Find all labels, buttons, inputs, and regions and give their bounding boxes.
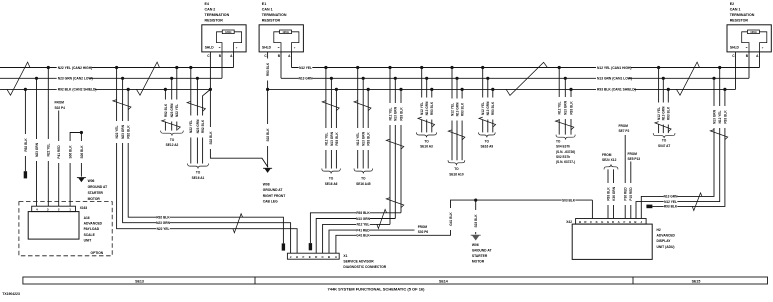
- wire N13 GRN drop: [426, 78, 428, 132]
- wire S02 BLK to ground W08: [210, 89, 268, 167]
- label N13 GRN: [424, 98, 429, 120]
- H2 advanced display unit box: [572, 224, 652, 259]
- node N13 GRN tap: [394, 77, 397, 80]
- twisted pair symbol X1 wires: [233, 214, 243, 233]
- svg-text:A16: A16: [84, 216, 90, 220]
- svg-text:R93 BLK: R93 BLK: [606, 187, 610, 201]
- svg-text:SE16 A6: SE16 A6: [325, 182, 338, 186]
- svg-text:S02 BLK: S02 BLK: [209, 131, 213, 145]
- svg-text:D: D: [612, 220, 614, 224]
- brace group D: [653, 133, 675, 138]
- label R93 BLK: [490, 98, 495, 120]
- node low tap X163: [35, 77, 38, 80]
- svg-text:R92 BLK: R92 BLK: [156, 215, 170, 219]
- node R93 BLK tap: [723, 88, 726, 91]
- svg-text:N22 YEL: N22 YEL: [157, 227, 170, 231]
- wire N13 GRN drop: [564, 78, 566, 134]
- brace group A: [322, 169, 341, 174]
- label R92 BLK: [126, 121, 131, 143]
- svg-text:SHLD: SHLD: [730, 45, 740, 49]
- svg-text:F: F: [302, 255, 304, 259]
- node N22 YEL tap: [115, 66, 118, 69]
- node tap group A: [324, 66, 327, 69]
- E4 CAN 2 termination resistor: [202, 2, 246, 58]
- svg-text:G41 BLK: G41 BLK: [356, 234, 370, 238]
- svg-text:N12 YEL: N12 YEL: [420, 102, 424, 115]
- wire S06 BLK to ground: [80, 133, 82, 177]
- label N12 YEL: [388, 103, 393, 125]
- svg-text:R93 BLK: R93 BLK: [356, 211, 370, 215]
- wire E4 pin A to high bus: [233, 52, 235, 68]
- label G41 BLK inline: [356, 233, 370, 238]
- twisted pair symbol: [187, 101, 205, 111]
- svg-text:OPTION: OPTION: [91, 251, 104, 255]
- svg-text:N13 GRN: N13 GRN: [330, 131, 334, 146]
- label N13 GRN (CAN1 LOW): [596, 76, 629, 81]
- wire P41 RED to pin B: [329, 230, 415, 253]
- svg-text:SE7 P2: SE7 P2: [619, 129, 630, 133]
- label N12 YEL: [717, 106, 722, 128]
- node tap group E: [569, 88, 572, 91]
- svg-text:X1: X1: [343, 254, 347, 258]
- svg-text:TO: TO: [424, 139, 429, 143]
- label N23 GRN: [34, 139, 39, 161]
- node tap group K: [491, 88, 494, 91]
- node N23 GRN tap: [121, 77, 124, 80]
- wire R93 BLK drop: [400, 89, 402, 212]
- wire N12 YEL drop: [558, 68, 560, 135]
- svg-text:N13 GRN: N13 GRN: [455, 102, 459, 117]
- twisted pair symbol T4: [677, 62, 700, 95]
- wire N13 GRN drop: [456, 78, 458, 160]
- label N12 YEL: [355, 128, 360, 150]
- label R92 BLK (CAN2 SHIELD): [57, 87, 95, 92]
- svg-text:S03 BLK: S03 BLK: [562, 198, 576, 202]
- svg-text:SE12 A2: SE12 A2: [166, 143, 179, 147]
- svg-text:SE5 P13: SE5 P13: [628, 157, 641, 161]
- E2 CAN 1 termination resistor: [727, 2, 771, 58]
- svg-text:TERMINATION: TERMINATION: [262, 13, 287, 17]
- brace group I: [416, 132, 436, 137]
- label S02 BLK: [208, 127, 213, 149]
- svg-text:SE14: SE14: [439, 279, 448, 283]
- svg-text:(S.N. -63726): (S.N. -63726): [556, 150, 575, 154]
- label N22 YEL inline: [156, 226, 170, 231]
- svg-text:N13 GRN: N13 GRN: [394, 106, 398, 121]
- wire N13 GRN drop: [394, 78, 396, 218]
- svg-text:TX1904223: TX1904223: [2, 292, 20, 296]
- svg-text:N13 GRN: N13 GRN: [486, 101, 490, 116]
- label N23 GRN: [169, 100, 174, 122]
- label R93 BLK: [460, 99, 465, 121]
- wire drop: [176, 68, 178, 131]
- svg-text:RIGHT FRONT: RIGHT FRONT: [263, 194, 286, 198]
- svg-text:TO: TO: [170, 138, 175, 142]
- svg-text:R93 BLK: R93 BLK: [667, 106, 671, 120]
- connector X163: [32, 206, 76, 211]
- svg-text:N12 YEL: N12 YEL: [481, 102, 485, 115]
- svg-text:H: H: [629, 220, 631, 224]
- node tap group J: [455, 77, 458, 80]
- svg-text:E: E: [601, 220, 603, 224]
- wire K36 GRN: [613, 169, 615, 218]
- svg-text:R93 BLK: R93 BLK: [266, 62, 270, 76]
- ground W06 starter motor: [78, 178, 85, 183]
- twisted pair symbol group I: [418, 117, 435, 127]
- svg-text:SCALE: SCALE: [84, 233, 96, 237]
- wire N22 YEL to X163 pin 3: [47, 68, 49, 207]
- svg-text:N12 YEL: N12 YEL: [450, 103, 454, 116]
- wire S06 BLK X163 pin 1: [70, 133, 81, 207]
- svg-text:R93 BLK: R93 BLK: [569, 101, 573, 115]
- svg-text:FROM: FROM: [628, 152, 638, 156]
- brace group E: [556, 135, 575, 140]
- wire N22 YEL drop: [117, 68, 298, 254]
- svg-text:N13 GRN: N13 GRN: [664, 195, 679, 199]
- wire E4 pin B to low bus: [221, 52, 223, 78]
- svg-text:N22 YEL: N22 YEL: [189, 120, 193, 133]
- svg-text:N22 YEL (CAN2 HIGH): N22 YEL (CAN2 HIGH): [58, 66, 93, 70]
- wire N22 YEL drop: [190, 68, 192, 164]
- svg-text:S047 AT: S047 AT: [658, 144, 670, 148]
- svg-text:DISPLAY: DISPLAY: [657, 239, 672, 243]
- svg-text:CAN 2: CAN 2: [205, 8, 216, 12]
- connector X42 bar: [576, 219, 647, 225]
- node tap group I: [425, 77, 428, 80]
- svg-text:S02 P6: S02 P6: [418, 230, 429, 234]
- label N13 GRN: [455, 99, 460, 121]
- svg-text:SE16 A9: SE16 A9: [481, 145, 494, 149]
- twisted pair symbol group D: [655, 122, 671, 132]
- svg-text:S06 BLK: S06 BLK: [68, 145, 72, 159]
- cap R93 BLK at X1: [309, 243, 312, 250]
- svg-text:N23 GRN (CAN2 LOW): N23 GRN (CAN2 LOW): [58, 77, 93, 81]
- node tap group E: [558, 66, 561, 69]
- twisted pair symbol group B: [354, 101, 371, 111]
- svg-text:TO: TO: [329, 177, 334, 181]
- svg-text:120Ω: 120Ω: [225, 30, 231, 34]
- svg-text:SE16 A45: SE16 A45: [356, 182, 371, 186]
- svg-text:N12 YEL: N12 YEL: [657, 107, 661, 120]
- node tap group B: [362, 77, 365, 80]
- svg-text:N12 YEL: N12 YEL: [558, 102, 562, 115]
- svg-text:MOTOR: MOTOR: [472, 259, 485, 263]
- svg-text:CAB LEG: CAB LEG: [263, 199, 278, 203]
- twisted pair symbol group K: [479, 117, 496, 127]
- twisted pair symbol: [386, 139, 404, 149]
- svg-text:TERMINATION: TERMINATION: [730, 13, 755, 17]
- ground W06 starter motor center: [472, 235, 480, 240]
- label S02 BLK: [265, 124, 270, 146]
- svg-text:+: +: [236, 46, 238, 50]
- label R92 BLK: [163, 100, 168, 122]
- label R93 BLK inline: [356, 210, 370, 215]
- svg-text:CAN 1: CAN 1: [262, 8, 273, 12]
- node tap group D: [657, 66, 660, 69]
- wire R93 BLK drop: [367, 89, 369, 168]
- twisted pair symbol CAN pair: [377, 209, 387, 228]
- brace group G: [161, 131, 184, 136]
- svg-text:UNIT: UNIT: [84, 238, 92, 242]
- svg-text:SE16 A1: SE16 A1: [192, 176, 205, 180]
- brace group B: [354, 169, 373, 174]
- svg-text:H2: H2: [657, 228, 661, 232]
- wire N12 YEL to pin B: [636, 68, 720, 219]
- node N12 YEL tap: [718, 66, 721, 69]
- svg-text:S06 BLK: S06 BLK: [80, 145, 84, 159]
- svg-text:W08: W08: [263, 183, 270, 187]
- svg-text:N12 YEL: N12 YEL: [324, 133, 328, 146]
- svg-text:ADVANCED: ADVANCED: [657, 234, 676, 238]
- svg-text:GROUND AT: GROUND AT: [472, 249, 492, 253]
- node N13 GRN tap: [712, 77, 715, 80]
- svg-text:N12 YEL: N12 YEL: [299, 66, 312, 70]
- svg-text:R92 BLK: R92 BLK: [201, 119, 205, 133]
- wire P41 RED to X163 pin 2: [58, 111, 60, 207]
- node tap group J: [461, 88, 464, 91]
- svg-text:FROM: FROM: [55, 101, 65, 105]
- twisted pair symbol H2 wires: [692, 193, 702, 211]
- wire R93 BLK: [607, 169, 609, 218]
- svg-text:N12 YEL: N12 YEL: [357, 223, 370, 227]
- wire N12 YEL drop: [451, 68, 453, 161]
- wire R93 BLK drop: [492, 89, 494, 132]
- label R92 BLK: [200, 116, 205, 138]
- svg-text:N23 GRN: N23 GRN: [35, 142, 39, 157]
- svg-text:SHLD: SHLD: [262, 45, 272, 49]
- svg-text:N12 YEL: N12 YEL: [718, 111, 722, 124]
- label N22 YEL: [174, 100, 179, 122]
- node tap bus2: [196, 77, 199, 80]
- svg-text:N13 GRN: N13 GRN: [362, 131, 366, 146]
- label N23 GRN: [195, 116, 200, 138]
- svg-text:R92 BLK (CAN2 SHIELD): R92 BLK (CAN2 SHIELD): [58, 88, 97, 92]
- wire R93 BLK drop: [335, 89, 337, 168]
- svg-text:R93 BLK: R93 BLK: [430, 101, 434, 115]
- svg-text:N22 YEL: N22 YEL: [115, 126, 119, 139]
- node shield bus end: [209, 88, 212, 91]
- svg-text:R93 BLK: R93 BLK: [723, 110, 727, 124]
- label N12 YEL (CAN1 HIGH): [596, 65, 631, 70]
- svg-text:SE16 A10: SE16 A10: [449, 172, 464, 176]
- svg-text:N13 GRN: N13 GRN: [712, 109, 716, 124]
- svg-text:E1: E1: [262, 2, 266, 6]
- wire G41 BLK to pin A: [336, 200, 593, 253]
- label N22 YEL: [114, 121, 119, 143]
- svg-text:R93 BLK: R93 BLK: [335, 132, 339, 146]
- svg-text:R92 BLK: R92 BLK: [164, 103, 168, 117]
- label N13 GRN: [712, 106, 717, 128]
- label S03 BLK: [473, 210, 478, 232]
- ground W08 right front cab leg: [264, 168, 271, 173]
- label R93 BLK (CAN1 SHIELD): [596, 87, 634, 92]
- svg-text:W06: W06: [88, 179, 95, 183]
- label N23 GRN inline: [156, 220, 170, 225]
- svg-text:120Ω: 120Ω: [282, 30, 288, 34]
- label P36 RED: [623, 183, 628, 205]
- node tap group I: [420, 66, 423, 69]
- svg-text:E2: E2: [730, 2, 734, 6]
- svg-text:TERMINATION: TERMINATION: [205, 13, 230, 17]
- label N12 YEL inline: [356, 222, 370, 227]
- wire P36 RED: [624, 135, 626, 219]
- svg-text:S02 E37h: S02 E37h: [556, 155, 570, 159]
- svg-text:N22 YEL: N22 YEL: [47, 144, 51, 157]
- svg-text:P36 RED: P36 RED: [624, 187, 628, 201]
- cap R92 BLK end: [24, 171, 27, 178]
- svg-text:N13 GRN: N13 GRN: [425, 101, 429, 116]
- svg-text:G41 BLK: G41 BLK: [449, 212, 453, 226]
- svg-text:N13 GRN: N13 GRN: [356, 217, 371, 221]
- label N22 YEL: [188, 116, 193, 138]
- label N12 YEL inline: [664, 199, 678, 204]
- wire N13 GRN to pin D: [316, 219, 395, 254]
- brace group J: [448, 160, 465, 165]
- svg-text:UNIT (ADU): UNIT (ADU): [657, 245, 675, 249]
- svg-text:TO: TO: [196, 171, 201, 175]
- wire R93 BLK drop: [461, 89, 463, 160]
- svg-text:K36 GRN: K36 GRN: [612, 186, 616, 201]
- svg-text:N13 GRN: N13 GRN: [299, 77, 314, 81]
- cap R93 BLK at H2: [646, 205, 652, 209]
- wire N13 GRN drop: [662, 78, 664, 133]
- label P41 RED: [56, 141, 61, 163]
- wire N12 YEL drop: [357, 68, 359, 169]
- wire P15 RED: [630, 162, 632, 219]
- svg-text:STARTER: STARTER: [472, 254, 488, 258]
- svg-text:R93 BLK: R93 BLK: [664, 205, 678, 209]
- A16 advanced payload scale unit box: [28, 212, 79, 240]
- svg-text:B: B: [634, 220, 636, 224]
- svg-text:744K SYSTEM FUNCTIONAL SCHEMAT: 744K SYSTEM FUNCTIONAL SCHEMATIC (5 OF 1…: [328, 287, 426, 292]
- wire R92 BLK to cap: [24, 89, 26, 171]
- svg-text:E: E: [309, 255, 311, 259]
- svg-text:RESISTOR: RESISTOR: [205, 19, 224, 23]
- node S06 BLK junction: [80, 131, 83, 134]
- svg-text:RESISTOR: RESISTOR: [730, 19, 749, 23]
- wire N23 GRN drop: [196, 78, 198, 163]
- wire N12 YEL to pin C: [323, 224, 390, 253]
- wire S03 BLK into pin C: [591, 200, 593, 218]
- svg-text:RESISTOR: RESISTOR: [262, 19, 281, 23]
- wire N13 GRN to pin J: [641, 78, 714, 218]
- svg-text:120Ω: 120Ω: [750, 30, 756, 34]
- node tap bus1: [189, 66, 192, 69]
- svg-text:R93 BLK: R93 BLK: [399, 107, 403, 121]
- svg-text:GROUND AT: GROUND AT: [88, 185, 108, 189]
- twisted pair symbol: [386, 198, 404, 208]
- twisted pair symbol group E: [556, 120, 574, 130]
- node tap bus3: [164, 88, 167, 91]
- svg-text:FROM: FROM: [602, 153, 612, 157]
- svg-text:+: +: [294, 46, 296, 50]
- svg-text:TO: TO: [485, 139, 490, 143]
- label P41 RED inline: [356, 228, 370, 233]
- label N12 YEL: [324, 128, 329, 150]
- svg-text:STARTER: STARTER: [88, 191, 104, 195]
- svg-text:N23 GRN: N23 GRN: [196, 119, 200, 134]
- node R93 BLK tap: [399, 88, 402, 91]
- svg-text:CAN 1: CAN 1: [730, 8, 741, 12]
- svg-text:ADVANCED: ADVANCED: [84, 222, 103, 226]
- twisted pair symbol T2: [137, 62, 160, 95]
- svg-text:R92 BLK: R92 BLK: [24, 138, 28, 152]
- svg-text:SE15: SE15: [692, 279, 701, 283]
- twisted pair symbol: [162, 120, 181, 130]
- twisted pair symbol group A: [322, 101, 339, 111]
- wire S03 BLK to ground: [475, 200, 477, 234]
- label N13 GRN inline: [664, 194, 678, 199]
- label R93 BLK E1 shield: [265, 59, 270, 81]
- twisted pair symbol T3: [506, 62, 547, 95]
- label N12 YEL: [419, 98, 424, 120]
- svg-text:S02 P4: S02 P4: [55, 106, 66, 110]
- svg-text:W06: W06: [472, 243, 479, 247]
- brace group K: [479, 132, 496, 137]
- svg-text:MOTOR: MOTOR: [88, 197, 101, 201]
- node R92 BLK tap: [127, 88, 130, 91]
- wire N23 GRN drop: [123, 78, 291, 253]
- label N13 GRN: [485, 98, 490, 120]
- label S03 BLK inline: [562, 198, 576, 203]
- E1 CAN 1 termination resistor: [259, 2, 303, 58]
- node tap group A: [330, 77, 333, 80]
- label R93 BLK: [606, 183, 611, 205]
- svg-text:N23 GRN: N23 GRN: [170, 103, 174, 118]
- svg-text:N13 GRN: N13 GRN: [564, 100, 568, 115]
- label R93 BLK: [723, 106, 728, 128]
- svg-text:P15 RED: P15 RED: [629, 187, 633, 201]
- label R93 BLK: [569, 97, 574, 119]
- svg-text:N12 YEL: N12 YEL: [664, 200, 677, 204]
- svg-text:TO: TO: [556, 139, 561, 143]
- svg-text:R93 BLK: R93 BLK: [460, 102, 464, 116]
- label N12 YEL jumper: [299, 65, 313, 70]
- node tap bus2: [170, 77, 173, 80]
- node tap group I: [430, 88, 433, 91]
- svg-text:R92 BLK: R92 BLK: [127, 125, 131, 139]
- twisted pair symbol T1: [7, 62, 30, 95]
- wire E2 pin C to shield bus: [735, 52, 737, 90]
- label R93 BLK: [334, 128, 339, 150]
- node high tap X163: [47, 66, 50, 69]
- label N23 GRN: [120, 121, 125, 143]
- svg-text:SE2# X12: SE2# X12: [602, 158, 617, 162]
- svg-text:PAYLOAD: PAYLOAD: [84, 227, 100, 231]
- twisted pair symbol group F: [710, 130, 727, 140]
- node tap bus1: [175, 66, 178, 69]
- label N12 YEL: [656, 103, 661, 125]
- wire CAN2 SHIELD bus R92 BLK: [0, 88, 210, 90]
- node tap group D: [667, 88, 670, 91]
- wire N23 GRN to X163 pin 4: [36, 78, 38, 206]
- wire N12 YEL drop: [421, 68, 423, 133]
- svg-text:DIAGNOSTIC CONNECTOR: DIAGNOSTIC CONNECTOR: [343, 265, 386, 269]
- svg-text:TO: TO: [361, 177, 366, 181]
- node N12 YEL tap: [388, 66, 391, 69]
- node S03 BLK ground junction: [474, 199, 477, 202]
- label R93 BLK: [666, 103, 671, 125]
- label N12 YEL: [480, 98, 485, 120]
- label R93 BLK: [399, 103, 404, 125]
- wire R92 BLK jog: [203, 89, 211, 163]
- label N13 GRN: [393, 103, 398, 125]
- label R93 BLK inline: [664, 204, 678, 209]
- wire R93 BLK drop: [667, 89, 669, 133]
- wire S02 BLK drop to W08: [267, 89, 269, 167]
- svg-text:E4: E4: [205, 2, 209, 6]
- label N13 GRN: [361, 128, 366, 150]
